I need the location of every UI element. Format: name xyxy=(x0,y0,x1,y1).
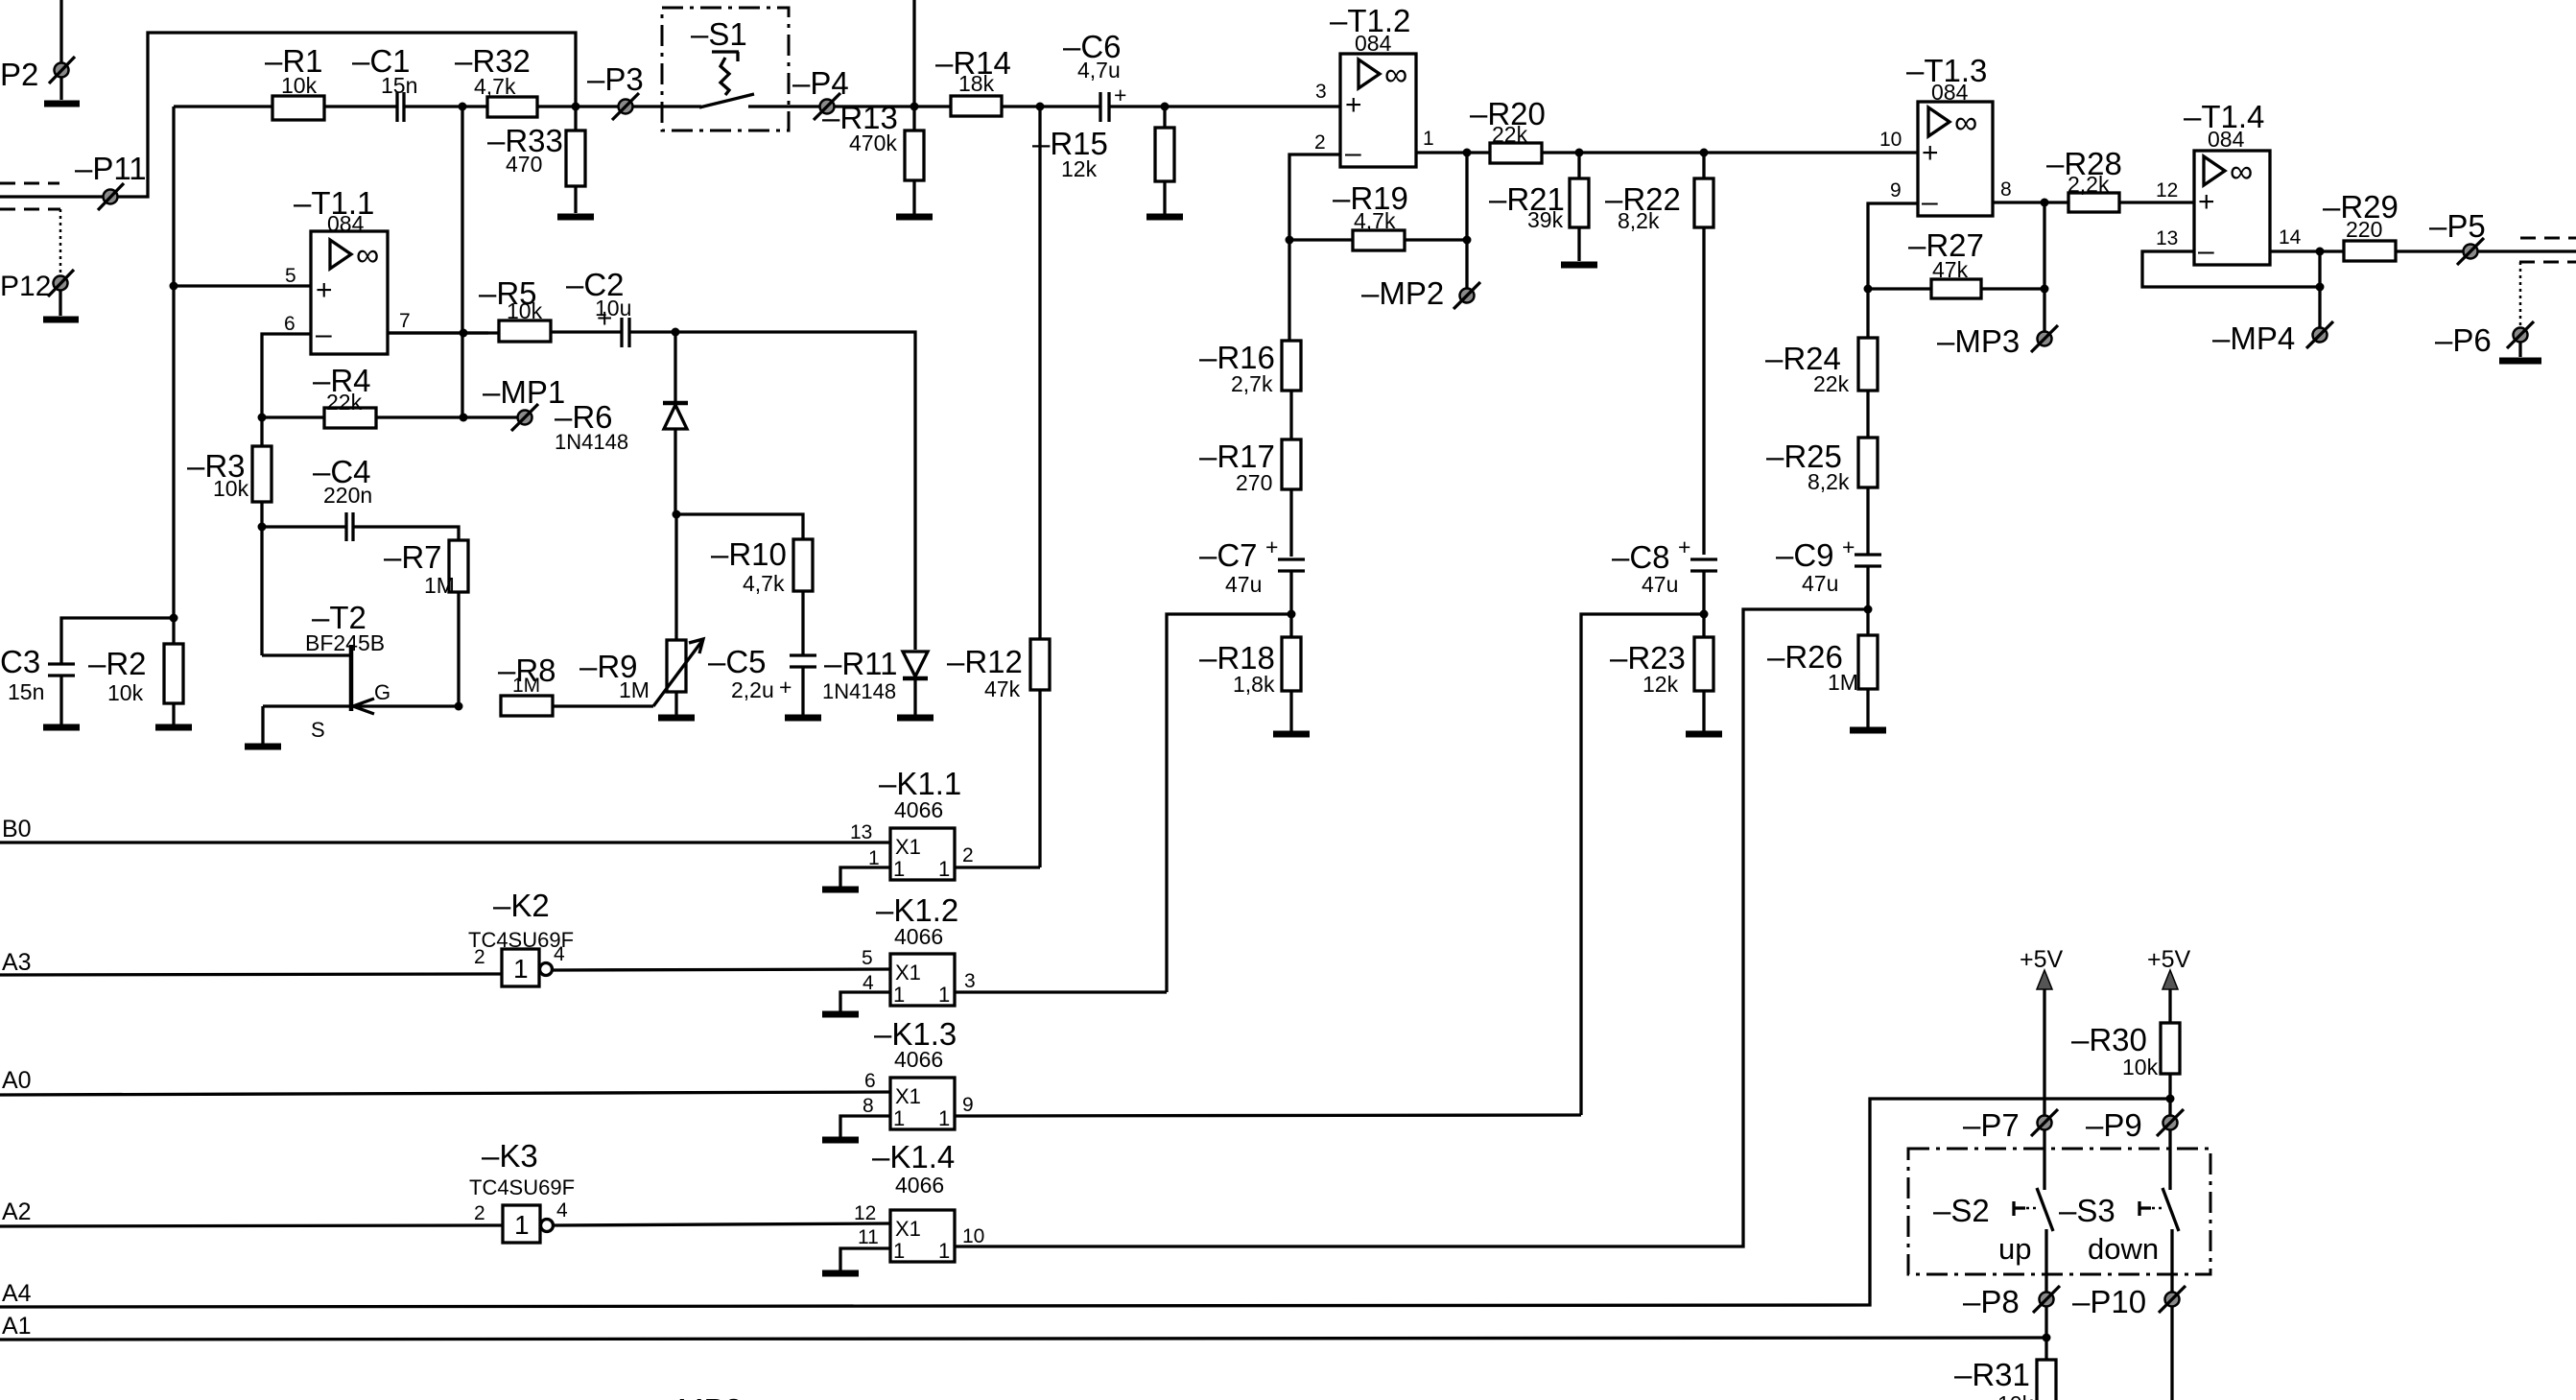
svg-text:1M: 1M xyxy=(619,677,650,702)
svg-text:2: 2 xyxy=(474,1202,485,1224)
svg-text:1: 1 xyxy=(893,857,905,881)
svg-text:–MP4: –MP4 xyxy=(2212,320,2295,356)
test point P9 xyxy=(2086,1107,2184,1143)
wire fb column T1.2 xyxy=(1465,153,1468,288)
svg-text:22k: 22k xyxy=(1813,371,1850,396)
ground under R23 xyxy=(1686,731,1722,738)
svg-text:–P3: –P3 xyxy=(587,61,644,97)
svg-text:X1: X1 xyxy=(895,961,921,985)
resistor R24 xyxy=(1765,338,1878,438)
resistor R26 xyxy=(1767,635,1878,727)
svg-text:220: 220 xyxy=(2346,217,2382,242)
svg-text:1N4148: 1N4148 xyxy=(555,430,628,454)
svg-text:084: 084 xyxy=(1931,80,1969,105)
wire feedback column xyxy=(461,107,463,417)
wire P5 out xyxy=(2478,249,2576,252)
node R4/MP1 xyxy=(460,414,468,422)
svg-text:–R2: –R2 xyxy=(88,646,147,681)
resistor R28 xyxy=(2046,146,2194,212)
ground under P12 xyxy=(43,317,79,323)
wire A0 row xyxy=(0,1092,890,1095)
svg-text:1: 1 xyxy=(938,1239,950,1263)
svg-text:2,2u: 2,2u xyxy=(731,677,774,702)
wire A3 row xyxy=(0,974,502,975)
ground under R11 xyxy=(897,715,934,722)
analog switch K1.1 xyxy=(850,766,974,881)
svg-text:4,7k: 4,7k xyxy=(743,571,785,596)
node R12 column xyxy=(1036,103,1045,111)
svg-text:9: 9 xyxy=(962,1094,974,1116)
svg-text:1: 1 xyxy=(938,857,950,881)
svg-text:–K3: –K3 xyxy=(482,1138,538,1174)
capacitor C3 xyxy=(0,618,174,724)
wire R14 to C6 xyxy=(1002,105,1100,107)
wire fb column T1.4 xyxy=(2318,251,2321,327)
svg-text:12k: 12k xyxy=(1061,156,1098,181)
wire dashed boundary lower xyxy=(2519,261,2576,264)
svg-text:470: 470 xyxy=(506,152,542,177)
wire R20 node to T1.3 xyxy=(1704,151,1918,154)
svg-text:P2: P2 xyxy=(0,57,38,92)
svg-text:4: 4 xyxy=(554,943,565,965)
svg-text:–C9: –C9 xyxy=(1776,537,1834,573)
svg-text:220n: 220n xyxy=(323,483,372,508)
svg-text:–R31: –R31 xyxy=(1954,1357,2030,1392)
ground under R21 xyxy=(1561,262,1597,269)
svg-text:–C5: –C5 xyxy=(708,644,767,679)
svg-text:1,8k: 1,8k xyxy=(1233,672,1275,697)
test point P12 xyxy=(0,209,74,316)
svg-text:10k: 10k xyxy=(107,680,144,705)
svg-text:2: 2 xyxy=(962,844,974,866)
capacitor C7 xyxy=(1199,534,1305,637)
svg-text:–K1.1: –K1.1 xyxy=(879,766,961,801)
svg-text:13: 13 xyxy=(2156,227,2178,249)
ground under P6 xyxy=(2499,358,2541,365)
wire C1 to node xyxy=(404,105,487,107)
resistor R32 xyxy=(455,43,537,117)
test point P5 xyxy=(2429,208,2486,265)
resistor R19 xyxy=(1289,180,1467,250)
test point MP4 xyxy=(2212,320,2333,356)
wire dashed boundary upper xyxy=(2520,237,2576,240)
svg-text:12: 12 xyxy=(854,1202,876,1224)
svg-text:8: 8 xyxy=(2000,178,2012,201)
diode R11 xyxy=(822,646,928,715)
svg-text:8,2k: 8,2k xyxy=(1808,469,1850,494)
svg-text:270: 270 xyxy=(1236,470,1272,495)
svg-text:10k: 10k xyxy=(507,298,543,323)
resistor R15 xyxy=(1032,107,1174,214)
wire C4 to R7 xyxy=(353,527,459,540)
svg-text:6: 6 xyxy=(284,313,295,335)
svg-text:X1: X1 xyxy=(895,1217,921,1241)
wire pin6 xyxy=(262,334,311,417)
resistor R16 xyxy=(1199,340,1301,439)
resistor R17 xyxy=(1199,439,1301,557)
capacitor C8 xyxy=(1612,534,1717,597)
svg-text:47k: 47k xyxy=(1932,257,1969,282)
wire R1 to C1 xyxy=(324,105,397,107)
node C8/R23 xyxy=(1700,610,1709,619)
node R19 left xyxy=(1286,236,1294,245)
wire P8 to R31 xyxy=(2044,1307,2047,1360)
svg-text:–: – xyxy=(2198,235,2214,267)
svg-text:–P4: –P4 xyxy=(792,65,849,101)
wire main row to R1 xyxy=(174,105,272,107)
capacitor C2 xyxy=(566,267,675,347)
op-amp T1.1 xyxy=(294,185,388,354)
resistor R21 xyxy=(1489,153,1589,261)
svg-text:1: 1 xyxy=(938,1106,950,1130)
svg-text:47u: 47u xyxy=(1802,571,1838,596)
node fb T1.4 xyxy=(2316,283,2325,292)
svg-text:10k: 10k xyxy=(1997,1391,2034,1400)
svg-text:+: + xyxy=(1114,83,1126,107)
svg-text:+: + xyxy=(1345,89,1362,121)
svg-text:47u: 47u xyxy=(1642,572,1678,597)
svg-text:14: 14 xyxy=(2279,226,2302,249)
resistor R29 xyxy=(2323,189,2463,261)
test point P7 xyxy=(1963,1107,2058,1143)
svg-text:15n: 15n xyxy=(8,679,44,704)
wire K1.1 pin1 to ground xyxy=(840,867,890,887)
capacitor C6 xyxy=(1063,29,1126,122)
svg-text:S: S xyxy=(311,718,325,742)
svg-text:B0: B0 xyxy=(2,816,32,842)
ground under R13 xyxy=(896,214,933,221)
svg-text:A3: A3 xyxy=(2,949,32,976)
wire A4 row to R30 node xyxy=(0,1099,2170,1307)
svg-text:11: 11 xyxy=(858,1226,879,1248)
svg-text:–P10: –P10 xyxy=(2072,1284,2146,1319)
svg-text:–K1.2: –K1.2 xyxy=(876,892,958,928)
node R6/R9/R10 xyxy=(673,510,681,519)
svg-text:+: + xyxy=(597,303,612,333)
resistor R7 xyxy=(384,539,468,706)
ground under C3 xyxy=(43,724,80,731)
svg-text:–R7: –R7 xyxy=(384,539,442,575)
node R3/C4 xyxy=(258,523,267,532)
svg-text:∞: ∞ xyxy=(1954,105,1977,141)
svg-text:up: up xyxy=(1998,1232,2031,1266)
svg-text:4066: 4066 xyxy=(894,797,943,822)
svg-text:13: 13 xyxy=(850,821,872,843)
node T1.2 out xyxy=(1463,149,1472,157)
node P8/A1 xyxy=(2043,1334,2051,1342)
svg-text:1: 1 xyxy=(893,1106,905,1130)
ground under R2 xyxy=(155,724,192,731)
resistor R1 xyxy=(265,43,324,120)
svg-text:–S1: –S1 xyxy=(691,16,747,52)
test point MP3 xyxy=(1937,323,2058,359)
svg-text:1: 1 xyxy=(513,954,529,984)
svg-text:P12: P12 xyxy=(0,271,51,302)
svg-text:+: + xyxy=(1678,534,1690,559)
svg-text:10V: 10V xyxy=(802,1396,850,1400)
svg-text:4066: 4066 xyxy=(894,1047,943,1072)
svg-text:G: G xyxy=(374,680,390,704)
wire K1.1 output to R12 xyxy=(955,866,1040,868)
wire C8 node left/down xyxy=(1581,614,1704,1115)
test point P10 xyxy=(2072,1284,2186,1319)
resistor R8 xyxy=(498,653,653,716)
ground under R18 xyxy=(1273,731,1310,738)
svg-text:12: 12 xyxy=(2156,179,2178,202)
resistor R10 xyxy=(676,514,813,655)
svg-text:+: + xyxy=(779,675,792,700)
svg-text:–P7: –P7 xyxy=(1963,1107,2020,1143)
svg-text:–P6: –P6 xyxy=(2435,322,2492,358)
svg-text:–C8: –C8 xyxy=(1612,539,1670,575)
op-amp T1.3 xyxy=(1906,53,1993,218)
node T1.3 out xyxy=(2041,199,2049,207)
svg-text:2,2k: 2,2k xyxy=(2068,172,2110,197)
resistor R2 xyxy=(88,618,183,724)
node R21 xyxy=(1575,149,1584,157)
svg-text:–: – xyxy=(1345,137,1361,169)
svg-text:A1: A1 xyxy=(2,1313,32,1340)
node input/+in xyxy=(170,282,178,291)
analog switch K1.4 xyxy=(854,1139,984,1263)
power +5V right xyxy=(2147,946,2191,1023)
wire pin9 xyxy=(1868,203,1918,338)
test point P3 xyxy=(587,61,644,120)
svg-text:–P11: –P11 xyxy=(75,151,147,186)
svg-text:1N4148: 1N4148 xyxy=(822,679,896,703)
svg-text:8: 8 xyxy=(863,1095,874,1117)
svg-text:A2: A2 xyxy=(2,1198,32,1225)
resistor R23 xyxy=(1610,637,1713,731)
node C9/R26 xyxy=(1864,605,1873,614)
wire pin5 xyxy=(174,284,311,287)
wire pin13 feedback xyxy=(2142,251,2320,287)
node C1/R32 xyxy=(459,103,467,111)
resistor R18 xyxy=(1199,637,1301,731)
svg-text:10: 10 xyxy=(1879,129,1902,151)
resistor R25 xyxy=(1766,438,1878,555)
svg-text:+5V: +5V xyxy=(2147,946,2191,973)
svg-text:5: 5 xyxy=(862,947,873,969)
switch S1 xyxy=(633,8,789,131)
svg-text:X1: X1 xyxy=(895,835,921,859)
node R27 right xyxy=(2041,285,2049,294)
svg-text:TC4SU69F: TC4SU69F xyxy=(469,1175,575,1199)
svg-text:–: – xyxy=(316,319,332,350)
wire A1 row to P8 node xyxy=(0,1338,2046,1340)
svg-text:4,7k: 4,7k xyxy=(474,74,516,99)
svg-text:+5V: +5V xyxy=(2020,946,2064,973)
svg-text:2: 2 xyxy=(474,946,485,968)
svg-text:–R30: –R30 xyxy=(2071,1022,2147,1057)
capacitor C4 xyxy=(262,454,372,541)
resistor R14 xyxy=(935,45,1011,116)
svg-text:–R23: –R23 xyxy=(1610,640,1686,676)
switch S3 xyxy=(2059,1130,2179,1292)
svg-text:47k: 47k xyxy=(984,676,1021,701)
svg-text:+: + xyxy=(2198,186,2215,218)
svg-text:BF245B: BF245B xyxy=(305,630,385,655)
power +5V left xyxy=(2020,946,2064,1115)
switch box S2 S3 xyxy=(1908,1149,2210,1274)
ground under R33 xyxy=(557,214,594,221)
inverter K2 xyxy=(468,888,574,986)
ground K1.3 xyxy=(822,1137,859,1144)
svg-text:–MP2: –MP2 xyxy=(1361,275,1444,311)
svg-text:+: + xyxy=(316,274,333,306)
svg-text:–: – xyxy=(1922,186,1938,218)
svg-text:–MP1: –MP1 xyxy=(483,374,565,410)
svg-text:1: 1 xyxy=(514,1210,530,1240)
node T1.4 out xyxy=(2316,248,2325,256)
svg-text:1: 1 xyxy=(938,983,950,1007)
svg-text:–R17: –R17 xyxy=(1199,439,1275,474)
wire pin14 output xyxy=(2270,249,2344,252)
svg-text:–R16: –R16 xyxy=(1199,340,1275,375)
svg-text:–R18: –R18 xyxy=(1199,640,1275,676)
svg-text:4,7k: 4,7k xyxy=(1354,208,1396,233)
ground K1.4 xyxy=(822,1270,859,1277)
switch S2 xyxy=(1933,1130,2053,1292)
svg-text:–C7: –C7 xyxy=(1199,537,1258,573)
svg-text:4,7u: 4,7u xyxy=(1077,58,1121,83)
svg-text:18k: 18k xyxy=(958,71,995,96)
test point P8 xyxy=(1963,1284,2060,1319)
svg-text:1M: 1M xyxy=(1828,670,1858,695)
svg-text:–P5: –P5 xyxy=(2429,208,2486,244)
ground under R15 xyxy=(1146,214,1183,221)
svg-text:A0: A0 xyxy=(2,1067,32,1094)
resistor R12 xyxy=(947,107,1050,867)
diode R6 xyxy=(555,332,688,514)
resistor R31 xyxy=(1954,1357,2056,1400)
wire K1.3 pin8 to ground xyxy=(840,1116,890,1137)
svg-text:22k: 22k xyxy=(1492,122,1528,147)
resistor R22 xyxy=(1605,153,1713,555)
ground under T2 source xyxy=(245,744,281,750)
svg-text:∞: ∞ xyxy=(2230,154,2253,190)
wire K3 out to K1.4 xyxy=(554,1223,890,1225)
wire fb column T1.3 xyxy=(2043,202,2045,331)
svg-text:3: 3 xyxy=(964,970,976,992)
svg-text:+: + xyxy=(1842,534,1855,559)
svg-text:+: + xyxy=(1922,137,1939,169)
inverter K3 xyxy=(469,1138,575,1243)
svg-text:084: 084 xyxy=(2208,127,2245,152)
svg-text:10k: 10k xyxy=(213,476,249,501)
wire pin7 output xyxy=(388,331,488,334)
svg-text:–K1.4: –K1.4 xyxy=(872,1139,955,1175)
svg-text:1: 1 xyxy=(1423,128,1434,150)
svg-text:3: 3 xyxy=(1315,81,1327,103)
svg-text:10k: 10k xyxy=(2122,1055,2159,1080)
svg-text:1: 1 xyxy=(893,983,905,1007)
wire C6 to T1.2 xyxy=(1109,105,1340,107)
wire top stub xyxy=(912,0,915,107)
resistor R33 xyxy=(487,107,585,213)
node C7/R18 xyxy=(1288,610,1296,619)
svg-text:–S3: –S3 xyxy=(2059,1193,2115,1228)
svg-text:1M: 1M xyxy=(512,675,540,697)
node R32/R33 xyxy=(572,103,580,111)
svg-text:47u: 47u xyxy=(1225,572,1262,597)
svg-text:8,2k: 8,2k xyxy=(1618,208,1660,233)
test point P2 xyxy=(0,0,75,100)
ground under R9 xyxy=(658,715,695,722)
wire pin8 output xyxy=(1993,201,2068,203)
node C3/R2 xyxy=(170,614,178,623)
resistor R30 xyxy=(2071,1022,2180,1115)
svg-text:9: 9 xyxy=(1890,179,1902,202)
node R4 left xyxy=(258,414,267,422)
wire A2 row xyxy=(0,1225,503,1226)
svg-text:–P8: –P8 xyxy=(1963,1284,2020,1319)
wire pin1 output xyxy=(1416,151,1490,154)
node R13 xyxy=(910,103,919,111)
svg-text:1M: 1M xyxy=(424,573,455,598)
wire K1.4 pin11 to ground xyxy=(840,1248,890,1270)
resistor R5 xyxy=(388,275,622,342)
resistor R4 xyxy=(262,363,517,428)
svg-text:22k: 22k xyxy=(326,390,363,415)
svg-text:C3: C3 xyxy=(0,644,40,679)
wire P4 to R14 xyxy=(835,105,951,107)
capacitor C1 xyxy=(352,43,417,122)
svg-text:5: 5 xyxy=(285,265,296,287)
capacitor C9 xyxy=(1776,534,1881,635)
node R27 left xyxy=(1864,285,1873,294)
node R15 xyxy=(1161,103,1170,111)
svg-text:–P9: –P9 xyxy=(2086,1107,2142,1143)
svg-text:15n: 15n xyxy=(381,73,417,98)
svg-text:1: 1 xyxy=(893,1239,905,1263)
resistor R27 xyxy=(1868,227,2044,298)
svg-text:MP8: MP8 xyxy=(677,1392,743,1400)
svg-text:A4: A4 xyxy=(2,1280,32,1307)
wire C2 node to R11 xyxy=(675,332,915,650)
wire K1.2 output to C7 column xyxy=(955,990,1167,993)
wire R32 to P3 xyxy=(537,105,619,107)
node R30/A4 xyxy=(2166,1095,2175,1103)
wire R20 to R22 node xyxy=(1542,151,1704,154)
test point MP2 xyxy=(1361,275,1480,311)
transistor T2 xyxy=(262,527,459,744)
capacitor C5 xyxy=(708,644,816,715)
svg-text:–MP3: –MP3 xyxy=(1937,323,2020,359)
svg-text:∞: ∞ xyxy=(356,237,379,273)
wire S1 to P4 xyxy=(789,105,819,107)
svg-text:2: 2 xyxy=(1314,131,1326,154)
svg-text:6: 6 xyxy=(864,1070,876,1092)
svg-text:–S2: –S2 xyxy=(1933,1193,1990,1228)
node output T1.1 xyxy=(460,329,468,338)
node R19 right xyxy=(1463,236,1472,245)
wire C7 node left/down xyxy=(1167,614,1291,992)
test point MP1 xyxy=(483,374,565,431)
svg-text:+: + xyxy=(1265,534,1278,559)
svg-text:4: 4 xyxy=(556,1199,568,1222)
node C2/R6 xyxy=(672,328,680,337)
svg-text:∞: ∞ xyxy=(1384,57,1407,93)
wire C8 stub xyxy=(1702,571,1705,637)
resistor R9 trimmer xyxy=(579,514,703,715)
svg-text:7: 7 xyxy=(399,310,411,332)
svg-text:2,7k: 2,7k xyxy=(1231,371,1273,396)
ground under C5 xyxy=(785,715,821,722)
test point P6 xyxy=(2435,262,2534,358)
wire B0 row xyxy=(0,841,890,843)
ground K1.2 xyxy=(822,1011,859,1018)
